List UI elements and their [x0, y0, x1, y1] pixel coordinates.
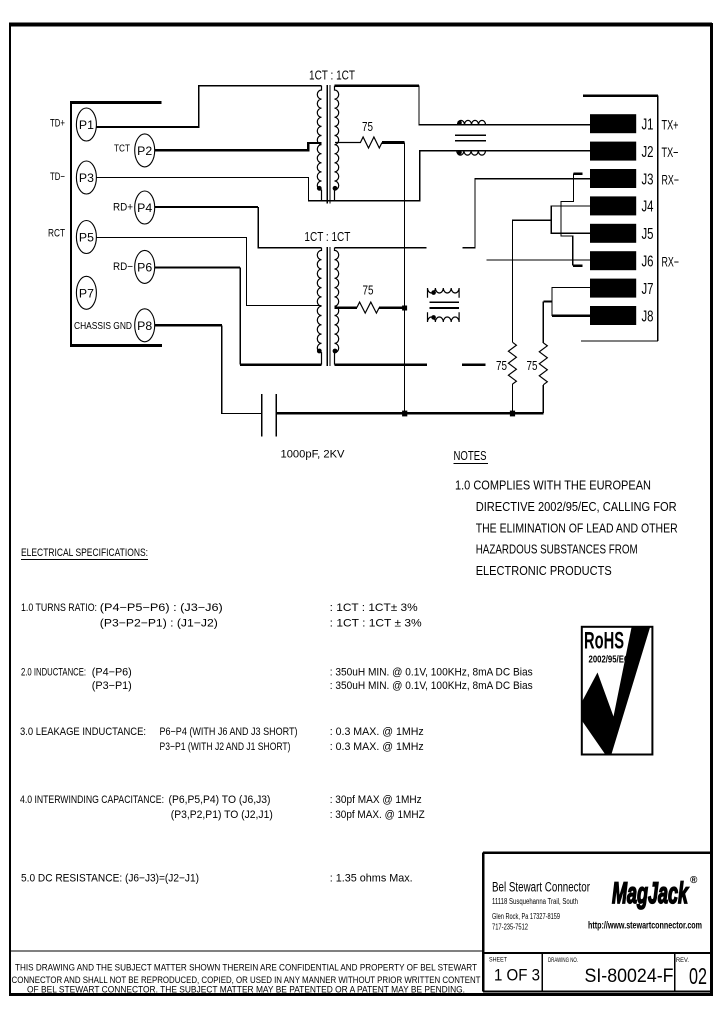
J6 pad [590, 251, 636, 270]
svg-text:(P3−P1): (P3−P1) [92, 680, 132, 692]
svg-text:: 0.3 MAX. @ 1MHz: : 0.3 MAX. @ 1MHz [330, 741, 424, 753]
svg-text:J4: J4 [642, 199, 654, 216]
note 1.0 text [455, 479, 678, 579]
choke L2 floating [428, 288, 460, 322]
svg-text:P1: P1 [79, 118, 94, 132]
svg-text:P5: P5 [79, 231, 94, 245]
title block frame [483, 853, 711, 992]
J1 pad [590, 114, 636, 133]
svg-text:J5: J5 [642, 226, 654, 243]
pin P4 [135, 191, 155, 224]
svg-text:HAZARDOUS SUBSTANCES FROM: HAZARDOUS SUBSTANCES FROM [476, 543, 638, 557]
svg-text:P3−P1 (WITH J2 AND J1 SHORT): P3−P1 (WITH J2 AND J1 SHORT) [160, 741, 291, 753]
svg-text:1 OF 3: 1 OF 3 [494, 967, 540, 985]
svg-text:(P3−P2−P1) : (J1−J2): (P3−P2−P1) : (J1−J2) [100, 618, 218, 630]
spec 1.0 turns ratio [21, 602, 422, 630]
svg-text:1000pF, 2KV: 1000pF, 2KV [281, 449, 346, 461]
svg-text:: 350uH MIN. @ 0.1V, 100KHz,: : 350uH MIN. @ 0.1V, 100KHz, 8mA DC Bias [330, 667, 533, 679]
svg-text:THIS DRAWING AND THE SUBJECT M: THIS DRAWING AND THE SUBJECT MATTER SHOW… [15, 963, 477, 974]
transformer T2 [317, 247, 339, 366]
svg-text:75: 75 [362, 119, 373, 134]
svg-text:: 1CT : 1CT± 3%: : 1CT : 1CT± 3% [330, 602, 418, 614]
svg-text:RD+: RD+ [113, 202, 133, 214]
wire R1 down to ground rail [404, 143, 406, 414]
svg-text:11118 Susquehanna Trail, South: 11118 Susquehanna Trail, South [492, 897, 578, 906]
spec 5.0 dc resistance [21, 872, 413, 884]
wire P5 to T2 center tap [96, 238, 321, 306]
svg-text:: 1CT : 1CT ± 3%: : 1CT : 1CT ± 3% [330, 618, 422, 630]
spec 2.0 inductance [21, 667, 533, 693]
J2 pad [590, 142, 636, 161]
svg-text:J8: J8 [642, 308, 654, 325]
rev cell [676, 957, 707, 989]
svg-text:4.0 INTERWINDING CAPACITANCE:: 4.0 INTERWINDING CAPACITANCE: [20, 794, 164, 806]
wire T1 top-right [335, 86, 458, 125]
J7 pad [590, 279, 636, 298]
svg-text:(P3,P2,P1) TO (J2,J1): (P3,P2,P1) TO (J2,J1) [171, 809, 273, 821]
wire P3 to T1 bottom [96, 177, 336, 200]
svg-text:OF BEL STEWART CONNECTOR. THE: OF BEL STEWART CONNECTOR. THE SUBJECT MA… [27, 984, 465, 995]
pin P8 [135, 309, 155, 342]
svg-text:P6−P4 (WITH J6 AND J3 SHORT): P6−P4 (WITH J6 AND J3 SHORT) [160, 726, 298, 738]
svg-text:1.0 COMPLIES WITH THE EUROPEA: 1.0 COMPLIES WITH THE EUROPEAN [455, 479, 651, 493]
svg-text:P4: P4 [137, 201, 152, 215]
junction dot R2 to rail riser [402, 306, 407, 311]
wire stub to J3 riser [463, 179, 591, 248]
svg-text:RoHS: RoHS [584, 628, 624, 655]
svg-text:Bel Stewart Connector: Bel Stewart Connector [492, 880, 590, 895]
pin P2 [135, 134, 155, 167]
svg-text:P7: P7 [79, 286, 94, 300]
svg-text:TD−: TD− [50, 171, 65, 183]
svg-text:J6: J6 [642, 254, 654, 271]
drawing no cell [548, 957, 674, 987]
svg-text:RCT: RCT [48, 228, 65, 240]
ground rail wire [276, 412, 543, 415]
J5 pad [590, 224, 636, 243]
sheet cell [489, 957, 540, 985]
svg-text:ELECTRONIC PRODUCTS: ELECTRONIC PRODUCTS [476, 564, 612, 578]
dash stub lower (near L2) [462, 364, 486, 366]
svg-text:3.0 LEAKAGE INDUCTANCE:: 3.0 LEAKAGE INDUCTANCE: [20, 726, 146, 738]
wire P2 to T1 center tap [155, 143, 322, 150]
svg-text:NOTES: NOTES [454, 449, 487, 463]
svg-text:1.0 TURNS RATIO:: 1.0 TURNS RATIO: [21, 602, 97, 614]
wire P4 to T2 top [155, 207, 322, 248]
svg-text:CHASSIS GND: CHASSIS GND [74, 321, 132, 332]
MagJack logo [612, 875, 698, 910]
svg-text:P8: P8 [137, 319, 152, 333]
svg-text:J2: J2 [642, 144, 654, 161]
svg-text:SHEET: SHEET [489, 957, 507, 964]
wire T2 bottom-right stub [335, 363, 428, 365]
svg-text:: 30pf MAX @ 1MHz: : 30pf MAX @ 1MHz [330, 794, 422, 806]
wire J7 J8 tie [543, 288, 590, 316]
svg-text:http://www.stewartconnector.co: http://www.stewartconnector.com [588, 921, 702, 932]
electrical specifications header [21, 547, 148, 560]
svg-text:: 0.3 MAX. @ 1MHz: : 0.3 MAX. @ 1MHz [330, 726, 424, 738]
svg-text:J3: J3 [642, 171, 654, 188]
wire into J6 [487, 259, 590, 261]
svg-text:RX−: RX− [662, 172, 680, 187]
svg-text:TD+: TD+ [50, 118, 65, 130]
wire P8 to capacitor [155, 325, 262, 413]
wire P1 to T1 top [96, 86, 321, 127]
junction dot rail-R3 [510, 411, 515, 417]
wire P6 to T2 bottom [155, 267, 322, 364]
choke L1 [455, 120, 486, 155]
spec 4.0 interwinding capacitance [20, 794, 425, 821]
svg-text:DRAWING NO.: DRAWING NO. [548, 957, 578, 964]
svg-text:(P4−P6): (P4−P6) [92, 667, 132, 679]
svg-text:2002/95/EC: 2002/95/EC [589, 654, 630, 666]
svg-text:717-235-7512: 717-235-7512 [492, 922, 528, 931]
resistor R1 75 [335, 137, 405, 148]
resistor R2 75 [335, 302, 404, 313]
confidentiality text [12, 963, 481, 996]
svg-text:: 30pf MAX. @ 1MHZ: : 30pf MAX. @ 1MHZ [330, 809, 425, 821]
pin P6 [135, 250, 155, 283]
J3 pad [590, 169, 636, 188]
svg-text:RD−: RD− [113, 261, 133, 273]
J connector outline [581, 96, 658, 341]
wire L1 to J2 [457, 150, 590, 152]
svg-text:2.0 INDUCTANCE:: 2.0 INDUCTANCE: [21, 667, 86, 679]
RoHS logo [582, 627, 653, 755]
svg-text:J7: J7 [642, 281, 654, 298]
svg-text:Glen Rock, Pa 17327-8159: Glen Rock, Pa 17327-8159 [492, 912, 560, 921]
svg-text:MagJack: MagJack [612, 877, 689, 910]
wire T1 bottom-right to choke L1 [335, 151, 457, 201]
svg-text:REV.: REV. [676, 957, 689, 964]
transformer T1 [317, 85, 339, 204]
wire J4 J5 tie [512, 206, 590, 342]
svg-text:TCT: TCT [114, 144, 130, 155]
svg-text:RX−: RX− [662, 255, 680, 270]
svg-text:(P4−P5−P6) : (J3−J6): (P4−P5−P6) : (J3−J6) [100, 602, 223, 614]
svg-text:SI-80024-F: SI-80024-F [585, 966, 674, 987]
pin P7 [76, 276, 96, 309]
svg-text:: 350uH MIN. @ 0.1V, 100KHz,: : 350uH MIN. @ 0.1V, 100KHz, 8mA DC Bias [330, 680, 533, 692]
svg-text:TX+: TX+ [662, 118, 679, 133]
svg-text:ELECTRICAL SPECIFICATIONS:: ELECTRICAL SPECIFICATIONS: [21, 547, 148, 559]
pin P1 [76, 108, 96, 141]
capacitor C1 1000pF 2KV [262, 394, 277, 437]
wire T2 top-right stub [335, 247, 427, 249]
svg-text:(P6,P5,P4) TO (J6,J3): (P6,P5,P4) TO (J6,J3) [169, 794, 271, 806]
bracket stub J3 [561, 174, 583, 266]
svg-text:1CT : 1CT: 1CT : 1CT [304, 229, 350, 244]
confidentiality box [10, 950, 483, 952]
svg-text:: 1.35 ohms Max.: : 1.35 ohms Max. [330, 872, 413, 884]
svg-text:75: 75 [496, 358, 507, 373]
svg-text:P6: P6 [137, 261, 152, 275]
J8 pad [590, 306, 636, 325]
svg-text:DIRECTIVE 2002/95/EC, CALLING: DIRECTIVE 2002/95/EC, CALLING FOR [476, 500, 677, 514]
svg-text:J1: J1 [642, 117, 654, 134]
svg-text:THE ELIMINATION OF LEAD AND OT: THE ELIMINATION OF LEAD AND OTHER [476, 521, 678, 535]
svg-text:®: ® [690, 875, 698, 886]
junction dot rail-R1 [402, 411, 407, 417]
resistor R4 75 vertical [539, 302, 547, 414]
connector body P-box [70, 102, 162, 346]
svg-text:02: 02 [689, 963, 707, 989]
pin P3 [76, 161, 96, 194]
wire L1 to J1 [458, 124, 591, 126]
svg-text:P2: P2 [137, 144, 152, 158]
svg-text:TX−: TX− [662, 145, 679, 160]
svg-text:75: 75 [527, 358, 538, 373]
pin P5 [76, 221, 96, 254]
svg-text:75: 75 [363, 283, 374, 298]
J4 pad [590, 196, 636, 215]
svg-text:5.0 DC RESISTANCE: (J6−J3)=(J: 5.0 DC RESISTANCE: (J6−J3)=(J2−J1) [21, 872, 199, 884]
svg-text:1CT : 1CT: 1CT : 1CT [309, 68, 355, 83]
resistor R3 75 vertical [508, 342, 516, 413]
notes header [454, 449, 489, 464]
spec 3.0 leakage inductance [20, 726, 424, 753]
svg-text:P3: P3 [79, 171, 94, 185]
